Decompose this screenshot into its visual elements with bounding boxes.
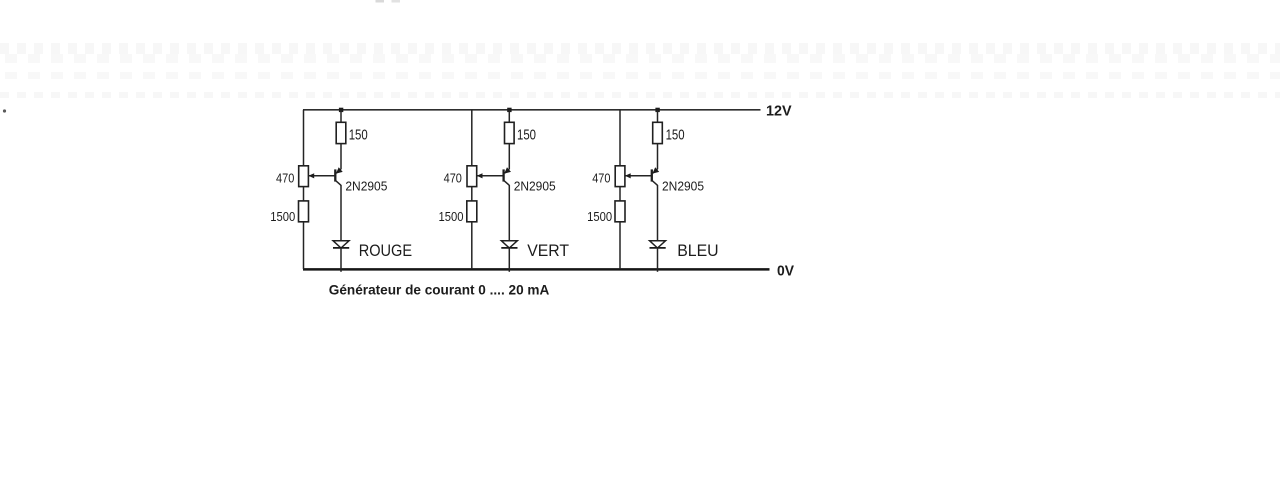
svg-text:VERT: VERT [527,242,569,260]
svg-text:ROUGE: ROUGE [359,242,413,260]
node junction dot top rail stage2 [507,108,511,112]
wire R150 to emitter [657,144,659,170]
svg-text:1500: 1500 [439,209,464,224]
transistor Q3 emitter lead [653,169,658,173]
wire rail to R 150 [508,110,510,123]
svg-text:Générateur de courant 0 .... 2: Générateur de courant 0 .... 20 mA [329,283,550,299]
wire collector to LED [657,185,659,241]
wire pot to R 1500 [619,187,621,201]
potentiometer 470 body [615,166,625,187]
svg-text:470: 470 [276,171,294,186]
svg-text:1500: 1500 [587,209,612,224]
wire rail to potentiometer [619,110,621,166]
wire 0V bottom rail [303,268,770,271]
wire collector to LED [340,185,342,241]
transistor Q1 base bar [334,169,336,181]
LED D2 triangle [501,241,517,248]
wire pot to R 1500 [303,187,305,201]
potentiometer wiper arrowhead [308,173,314,178]
svg-text:470: 470 [592,171,610,186]
resistor 150 body [336,122,346,143]
svg-text:0V: 0V [777,264,794,280]
LED D2 cathode bar [501,247,517,249]
resistor 150 body [653,122,663,143]
wire base to potentiometer wiper [309,175,335,177]
transistor Q2 base bar [502,169,504,181]
node junction dot top rail stage1 [339,108,343,112]
wire 12V top rail [303,109,761,111]
wire R1500 to 0V rail [303,222,305,269]
transistor Q2 emitter arrow (PNP) [504,167,511,173]
wire LED to 0V rail [340,248,342,272]
LED D1 triangle [333,241,349,248]
transistor Q1 collector lead [336,181,341,186]
resistor 1500 body [467,201,477,222]
svg-text:2N2905: 2N2905 [662,179,704,194]
resistor 1500 body [615,201,625,222]
resistor 150 body [505,122,515,143]
LED D1 cathode bar [333,247,349,249]
wire R1500 to 0V rail [471,222,473,269]
svg-text:150: 150 [517,127,536,143]
node junction dot top rail stage3 [655,108,659,112]
LED D3 triangle [650,241,666,248]
stray dot left margin [3,109,6,112]
potentiometer 470 body [467,166,477,187]
wire rail to potentiometer [303,110,305,166]
wire LED to 0V rail [657,248,659,272]
transistor Q2 emitter lead [505,169,510,173]
wire R150 to emitter [508,144,510,170]
potentiometer wiper arrowhead [477,173,483,178]
transistor Q1 emitter lead [336,169,341,173]
wire pot to R 1500 [471,187,473,201]
svg-text:150: 150 [666,127,685,143]
transistor Q3 emitter arrow (PNP) [652,167,659,173]
svg-text:150: 150 [349,127,368,143]
cropped text smudge top edge [376,0,385,3]
wire R150 to emitter [340,144,342,170]
wire rail to potentiometer [471,110,473,166]
svg-text:470: 470 [444,171,462,186]
svg-text:1500: 1500 [270,209,295,224]
wire R1500 to 0V rail [619,222,621,269]
transistor Q2 collector lead [504,181,509,186]
svg-text:12V: 12V [766,104,792,120]
wire rail to R 150 [340,110,342,123]
wire LED to 0V rail [508,248,510,272]
wire rail to R 150 [657,110,659,123]
wire base to potentiometer wiper [625,175,651,177]
wire base to potentiometer wiper [477,175,503,177]
potentiometer wiper arrowhead [625,173,631,178]
svg-text:BLEU: BLEU [677,242,718,260]
potentiometer 470 body [299,166,309,187]
wire collector to LED [508,185,510,241]
transistor Q3 base bar [651,169,653,181]
svg-text:2N2905: 2N2905 [514,179,556,194]
resistor 1500 body [299,201,309,222]
LED D3 cathode bar [650,247,666,249]
svg-text:2N2905: 2N2905 [345,179,387,194]
transistor Q3 collector lead [652,181,657,186]
transistor Q1 emitter arrow (PNP) [336,167,343,173]
